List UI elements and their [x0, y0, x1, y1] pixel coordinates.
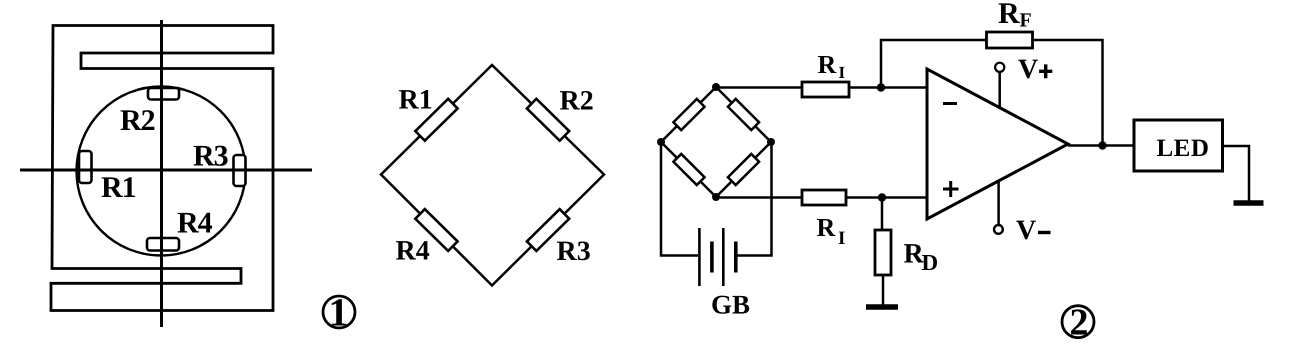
output wire to LED — [1068, 144, 1134, 147]
svg-text:R: R — [998, 0, 1020, 30]
wire R_I to inverting input — [849, 86, 927, 89]
vertical axis line — [160, 20, 163, 327]
V- supply pin — [997, 182, 1000, 225]
node non-inverting input junction — [878, 193, 886, 201]
wire R_I to non-inverting input — [846, 196, 927, 199]
resistor R_D — [881, 198, 884, 232]
resistor R_I (lower) — [802, 190, 846, 205]
node right vertex — [767, 138, 775, 146]
svg-text:D: D — [922, 250, 939, 275]
op-amp U1 — [927, 69, 1068, 219]
node inverting input junction — [877, 83, 885, 91]
svg-text:LED: LED — [1157, 135, 1210, 162]
svg-text:R2: R2 — [560, 86, 594, 117]
resistor R3 (bottom-right arm) — [527, 209, 569, 251]
node left vertex — [657, 138, 665, 146]
gauge R1 — [79, 151, 92, 183]
LED block — [1134, 120, 1223, 171]
horizontal axis line — [20, 169, 312, 172]
V+ supply pin — [998, 72, 1001, 107]
resistor R2 (top-right arm) — [527, 99, 569, 141]
ground right — [1234, 200, 1264, 206]
bridge diamond wires — [661, 87, 771, 197]
bridge resistor top-left — [673, 99, 704, 130]
svg-text:R2: R2 — [120, 104, 156, 137]
battery GB wires — [661, 142, 698, 256]
svg-text:I: I — [838, 228, 845, 249]
plus sign — [943, 181, 959, 197]
svg-text:R4: R4 — [396, 236, 430, 267]
resistor R4 (bottom-left arm) — [415, 209, 457, 251]
wire bottom vertex to R_I lower — [716, 196, 802, 199]
wire LED to ground — [1223, 146, 1250, 202]
svg-text:R: R — [817, 213, 836, 242]
feedback wire from R_F down to output — [1033, 40, 1103, 145]
svg-text:R1: R1 — [101, 171, 137, 204]
svg-text:V: V — [1018, 54, 1038, 85]
feedback wire up from inverting node — [881, 40, 986, 88]
minus sign — [943, 102, 957, 105]
serpentine diaphragm outline — [51, 26, 273, 311]
ground below R_D — [866, 304, 898, 310]
resistor R1 (top-left arm) — [415, 99, 457, 141]
svg-text:R3: R3 — [193, 140, 229, 173]
gauge R3 — [234, 155, 246, 186]
svg-text:F: F — [1020, 10, 1032, 32]
bridge resistor top-right — [728, 99, 759, 130]
gauge R2 — [148, 88, 179, 100]
svg-text:R: R — [818, 50, 837, 79]
resistor R_F — [987, 32, 1033, 48]
svg-text:1: 1 — [329, 290, 349, 335]
battery GB plates — [698, 228, 701, 286]
svg-text:R4: R4 — [177, 207, 213, 240]
circle (membrane) — [77, 87, 246, 256]
svg-text:V: V — [1016, 215, 1036, 246]
wire top vertex to R_I — [716, 86, 802, 89]
svg-text:2: 2 — [1070, 302, 1089, 344]
bridge resistor bottom-left — [673, 154, 704, 185]
node output junction — [1098, 141, 1106, 149]
gauge R4 — [147, 238, 179, 251]
node bottom vertex — [712, 193, 720, 201]
svg-text:R1: R1 — [399, 85, 433, 116]
svg-text:I: I — [839, 63, 846, 82]
resistor R_I (upper) — [802, 82, 849, 97]
svg-text:GB: GB — [711, 289, 750, 319]
circled 2 figure number — [1062, 306, 1094, 338]
svg-text:R3: R3 — [557, 236, 591, 267]
bridge diamond wires — [381, 65, 604, 286]
circled 1 figure number — [323, 296, 355, 328]
node top vertex — [712, 83, 720, 91]
bridge resistor bottom-right — [728, 154, 759, 185]
